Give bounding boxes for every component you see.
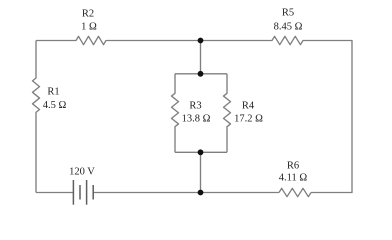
- svg-text:R2: R2: [82, 8, 94, 19]
- svg-text:4.11 Ω: 4.11 Ω: [279, 173, 308, 184]
- svg-text:8.45 Ω: 8.45 Ω: [274, 22, 303, 33]
- svg-text:13.8 Ω: 13.8 Ω: [182, 114, 211, 125]
- svg-text:17.2 Ω: 17.2 Ω: [234, 114, 263, 125]
- svg-text:R5: R5: [282, 7, 294, 18]
- svg-text:120 V: 120 V: [69, 167, 95, 178]
- svg-text:1 Ω: 1 Ω: [81, 22, 97, 33]
- svg-text:R4: R4: [242, 100, 255, 111]
- svg-text:R3: R3: [189, 100, 201, 111]
- svg-text:R1: R1: [47, 86, 59, 97]
- svg-text:R6: R6: [287, 160, 299, 171]
- svg-text:4.5 Ω: 4.5 Ω: [43, 100, 67, 111]
